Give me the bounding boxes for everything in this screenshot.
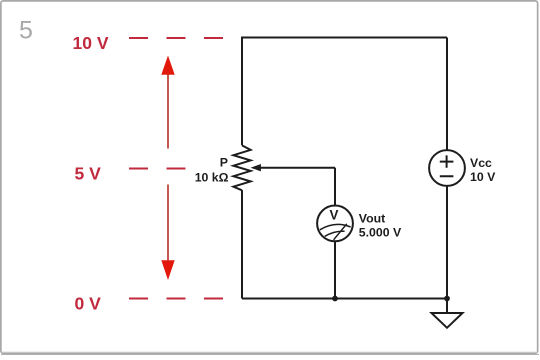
svg-text:10 V: 10 V [73,33,109,53]
svg-text:Vout: Vout [359,212,385,226]
svg-text:5 V: 5 V [75,164,102,184]
svg-text:5: 5 [19,17,33,45]
svg-text:0 V: 0 V [75,294,102,314]
svg-text:5.000 V: 5.000 V [359,226,402,240]
svg-text:10 V: 10 V [470,170,496,184]
svg-text:V: V [330,207,339,222]
svg-text:Vcc: Vcc [470,156,492,170]
svg-text:10 kΩ: 10 kΩ [195,171,229,185]
svg-text:P: P [220,155,228,169]
